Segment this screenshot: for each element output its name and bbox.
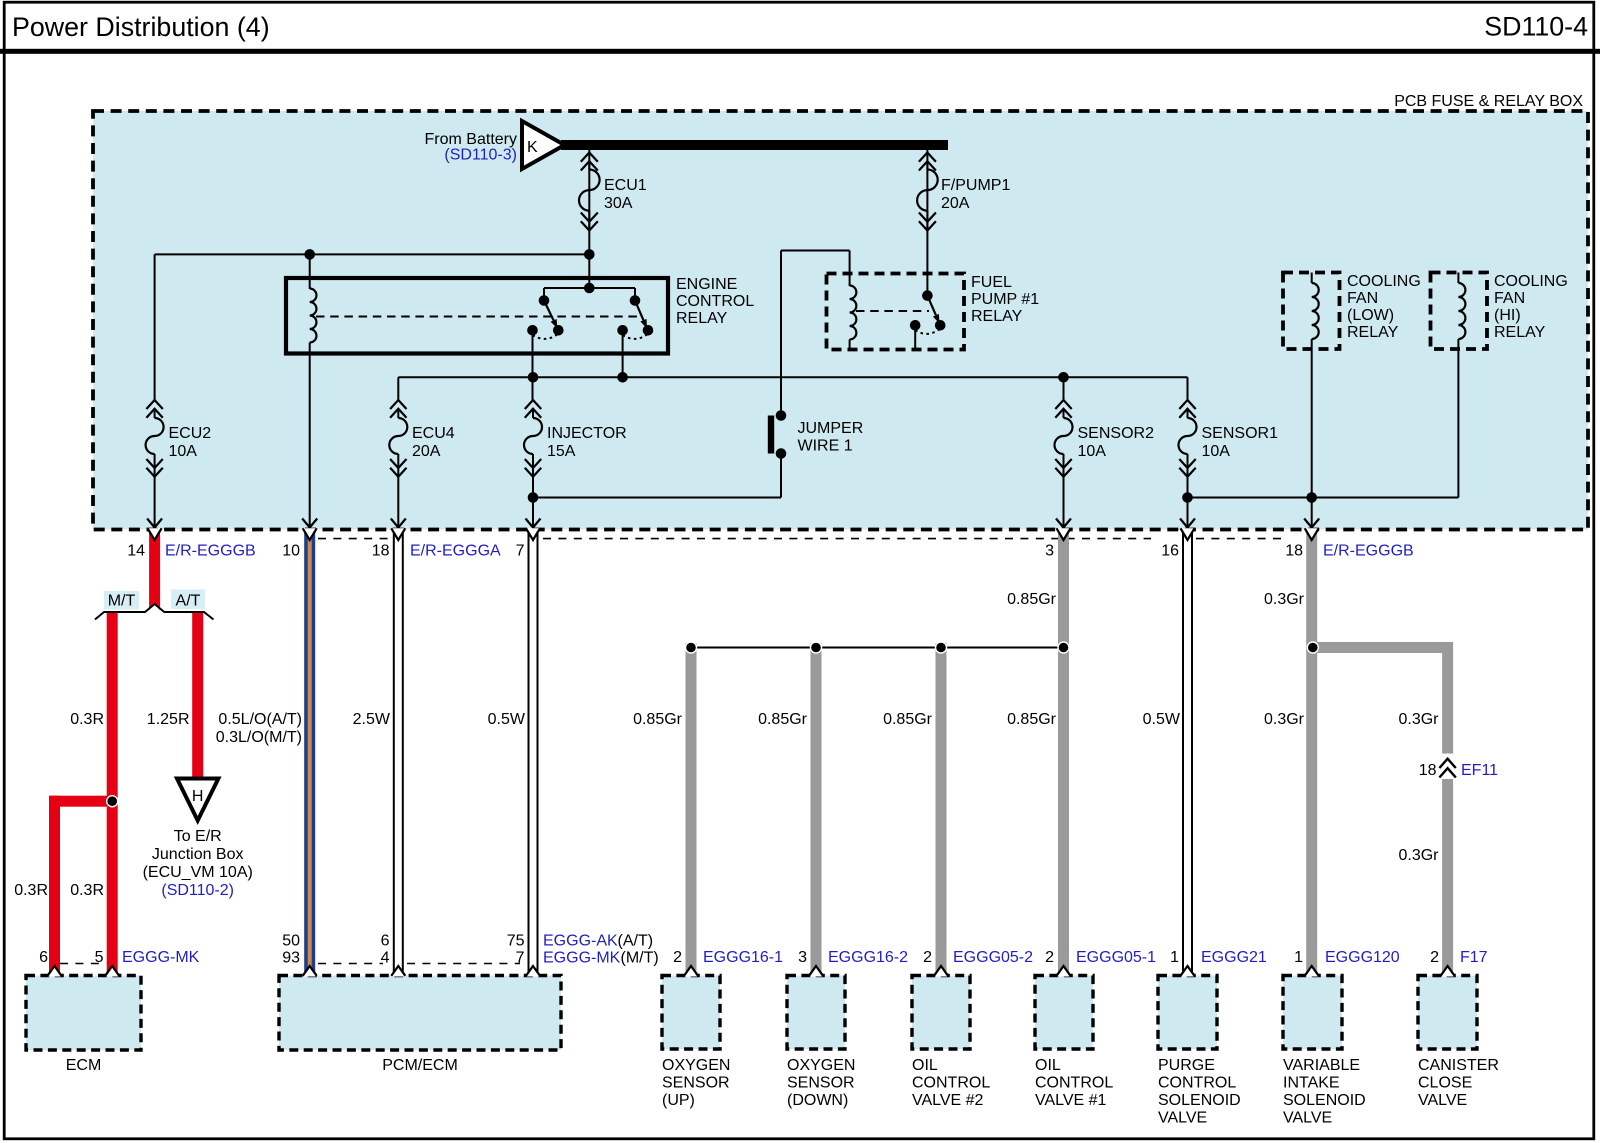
svg-text:Junction Box: Junction Box xyxy=(152,846,244,863)
net EGGG-AK (A/T) xyxy=(543,933,653,950)
label ENGINE CONTROL RELAY xyxy=(676,276,754,327)
node red junction xyxy=(107,796,118,807)
svg-text:(M/T): (M/T) xyxy=(621,950,659,967)
label 0.85Gr oil valve 2 xyxy=(883,711,933,728)
label pin 6 xyxy=(39,949,48,966)
ECM pin 6 entry xyxy=(48,966,62,977)
fuse ECU1 30A xyxy=(579,153,600,231)
svg-text:CONTROL: CONTROL xyxy=(1035,1075,1113,1092)
label pin 10 xyxy=(282,543,300,560)
label 0.5L/O(A/T) 0.3L/O(M/T) xyxy=(216,711,302,746)
label PCM/ECM xyxy=(382,1057,458,1074)
svg-text:0.3R: 0.3R xyxy=(70,711,104,728)
label 0.85Gr oxygen up xyxy=(633,711,683,728)
label 0.85Gr sensor2 upper xyxy=(1007,591,1057,608)
node gray bus 4 xyxy=(1058,642,1069,653)
svg-text:6: 6 xyxy=(381,933,390,950)
svg-text:10A: 10A xyxy=(1078,443,1107,460)
relay U1 contact bar xyxy=(544,288,635,296)
label pin 2 oil1 xyxy=(1045,949,1054,966)
oxygen up pin 2 entry xyxy=(684,966,698,977)
net F17 xyxy=(1460,949,1488,966)
connector pin 7 xyxy=(526,519,541,541)
label 0.5W xyxy=(488,711,526,728)
oil valve 1 pin 2 entry xyxy=(1057,966,1071,977)
svg-text:3: 3 xyxy=(798,949,807,966)
label COOLING FAN (HI) RELAY xyxy=(1494,273,1568,341)
svg-text:FAN: FAN xyxy=(1494,290,1525,307)
svg-text:0.3Gr: 0.3Gr xyxy=(1398,711,1439,728)
box ECM xyxy=(26,976,141,1051)
label 0.85Gr oxygen down xyxy=(758,711,808,728)
ECM pin 5 entry xyxy=(105,966,119,977)
node gray bus 1 xyxy=(686,642,697,653)
svg-text:A/T: A/T xyxy=(176,593,201,610)
box OIL CONTROL VALVE #1 xyxy=(1035,976,1093,1050)
svg-text:15A: 15A xyxy=(547,443,576,460)
to E/R arrow H xyxy=(177,779,218,821)
net EGGG21 xyxy=(1201,949,1267,966)
svg-text:E/R-EGGGA: E/R-EGGGA xyxy=(410,543,501,560)
svg-text:Power Distribution (4): Power Distribution (4) xyxy=(12,12,270,42)
label VARIABLE INTAKE SOLENOID VALVE xyxy=(1283,1057,1366,1127)
fuse ECU4 20A xyxy=(389,400,407,477)
relay K2 switch contacts xyxy=(910,320,946,334)
svg-text:SENSOR2: SENSOR2 xyxy=(1078,425,1155,442)
title separator line xyxy=(0,49,1600,54)
svg-text:SD110-4: SD110-4 xyxy=(1484,12,1588,42)
svg-text:EGGG05-1: EGGG05-1 xyxy=(1076,949,1156,966)
svg-text:0.3Gr: 0.3Gr xyxy=(1264,711,1305,728)
wire 0.3R label xyxy=(70,711,104,728)
title Power Distribution (4) xyxy=(12,12,270,42)
from-battery arrow K xyxy=(522,121,565,169)
svg-text:10A: 10A xyxy=(169,443,198,460)
label pin 1 purge xyxy=(1170,949,1179,966)
svg-text:20A: 20A xyxy=(941,195,970,212)
label ECU4 20A xyxy=(412,425,455,460)
wire oxygen sensor gray bus xyxy=(691,647,1064,649)
svg-text:VALVE: VALVE xyxy=(1283,1110,1332,1127)
svg-text:ECU2: ECU2 xyxy=(169,425,212,442)
svg-text:4: 4 xyxy=(381,950,390,967)
variable intake pin 1 entry xyxy=(1305,966,1319,977)
relay K3 COOLING FAN (LOW) RELAY box xyxy=(1283,273,1340,350)
svg-text:M/T: M/T xyxy=(108,593,136,610)
svg-text:0.85Gr: 0.85Gr xyxy=(758,711,808,728)
label 2.5W xyxy=(353,711,391,728)
svg-text:SENSOR: SENSOR xyxy=(662,1075,730,1092)
label OXYGEN SENSOR (DOWN) xyxy=(787,1057,855,1109)
svg-text:6: 6 xyxy=(39,949,48,966)
svg-text:PCB FUSE & RELAY BOX: PCB FUSE & RELAY BOX xyxy=(1394,93,1583,110)
label 0.3Gr branch xyxy=(1398,711,1439,728)
label To E/R Junction Box xyxy=(143,828,253,881)
svg-text:18: 18 xyxy=(1419,762,1437,779)
relay K2 switch arm xyxy=(927,296,939,324)
svg-text:0.3R: 0.3R xyxy=(70,882,104,899)
wire 0.85Gr gray oxygen down xyxy=(811,643,822,976)
relay U1 switch 1 pivot xyxy=(539,295,550,306)
svg-text:(SD110-3): (SD110-3) xyxy=(444,147,517,164)
wire relay coil to connector pin10 xyxy=(309,354,311,528)
connector pin 10 xyxy=(302,519,317,541)
canister pin 2 entry xyxy=(1441,966,1455,977)
svg-text:OIL: OIL xyxy=(912,1057,938,1074)
node junction relay coil top xyxy=(304,249,315,260)
label F/PUMP1 20A xyxy=(941,177,1010,212)
node jumper bottom xyxy=(776,448,787,459)
label pin 7 xyxy=(516,543,525,560)
svg-text:VALVE: VALVE xyxy=(1418,1092,1467,1109)
wire cooling fan link xyxy=(1188,497,1459,499)
svg-text:5: 5 xyxy=(95,949,104,966)
svg-text:30A: 30A xyxy=(604,195,633,212)
wire 0.85Gr gray oil valve 2 xyxy=(936,643,947,976)
label INJECTOR 15A xyxy=(547,425,627,460)
node dist injector xyxy=(528,372,539,383)
svg-text:2: 2 xyxy=(923,949,932,966)
oil valve 2 pin 2 entry xyxy=(934,966,948,977)
title SD110-4 xyxy=(1484,12,1588,42)
box PCM/ECM xyxy=(279,976,561,1051)
svg-text:EGGG-MK: EGGG-MK xyxy=(543,950,621,967)
svg-text:2: 2 xyxy=(1045,949,1054,966)
label pin 14 xyxy=(127,543,145,560)
svg-text:PUMP #1: PUMP #1 xyxy=(971,291,1039,308)
svg-text:ECU1: ECU1 xyxy=(604,177,647,194)
label 0.5W sensor1 xyxy=(1143,711,1181,728)
node gray branch junction xyxy=(1307,642,1318,653)
node gray bus 3 xyxy=(936,642,947,653)
relay U1 switch 1 arm xyxy=(544,301,558,329)
label pin 3 oxy down xyxy=(798,949,807,966)
wire relay contact feed xyxy=(588,254,590,288)
box CANISTER CLOSE VALVE xyxy=(1418,976,1477,1050)
svg-text:INJECTOR: INJECTOR xyxy=(547,425,627,442)
svg-text:(SD110-2): (SD110-2) xyxy=(161,882,234,899)
wire 0.3R red M/T branch xyxy=(107,613,118,976)
label ECU1 30A xyxy=(604,177,647,212)
box OXYGEN SENSOR (UP) xyxy=(662,976,720,1050)
svg-text:(ECU_VM 10A): (ECU_VM 10A) xyxy=(143,864,253,881)
svg-text:JUMPER: JUMPER xyxy=(798,420,864,437)
svg-text:OXYGEN: OXYGEN xyxy=(662,1057,730,1074)
svg-text:3: 3 xyxy=(1045,543,1054,560)
oxygen down pin 3 entry xyxy=(809,966,823,977)
wire 0.85Gr gray oxygen up xyxy=(686,643,697,976)
svg-text:FAN: FAN xyxy=(1347,290,1378,307)
label pin 3 xyxy=(1045,543,1054,560)
svg-text:INTAKE: INTAKE xyxy=(1283,1075,1340,1092)
svg-text:RELAY: RELAY xyxy=(1347,324,1399,341)
svg-text:EGGG120: EGGG120 xyxy=(1325,949,1400,966)
relay K4 coil xyxy=(1458,273,1465,498)
label EF11 xyxy=(1461,762,1498,779)
relay K4 COOLING FAN (HI) RELAY box xyxy=(1431,273,1488,350)
label COOLING FAN (LOW) RELAY xyxy=(1347,273,1421,341)
label 0.3Gr below EF11 xyxy=(1398,847,1439,864)
label pin 5 xyxy=(95,949,104,966)
svg-text:WIRE 1: WIRE 1 xyxy=(798,438,853,455)
connector dashes top xyxy=(318,538,1286,540)
svg-text:FUEL: FUEL xyxy=(971,274,1012,291)
PCM pin 75/7 entry xyxy=(526,966,540,977)
wire relay U1 out2 xyxy=(622,330,624,378)
relay K3 coil xyxy=(1312,273,1319,529)
label pin 6 4 xyxy=(381,933,390,967)
label OIL CONTROL VALVE #2 xyxy=(912,1057,990,1109)
label pin 2 canister xyxy=(1430,949,1439,966)
relay K2 switch pivot xyxy=(922,290,933,301)
svg-text:H: H xyxy=(192,788,204,805)
wire fuel pump coil feed xyxy=(781,251,850,287)
fuse INJECTOR 15A xyxy=(524,400,542,477)
node dist relay out2 xyxy=(617,372,628,383)
svg-text:0.85Gr: 0.85Gr xyxy=(1007,711,1057,728)
wire SENSOR2 to connector xyxy=(1063,477,1065,528)
connector pin 18 left xyxy=(391,519,406,541)
svg-text:VARIABLE: VARIABLE xyxy=(1283,1057,1360,1074)
svg-text:EGGG-AK: EGGG-AK xyxy=(543,933,618,950)
label 0.3Gr pin18 lower xyxy=(1264,711,1305,728)
svg-text:VALVE: VALVE xyxy=(1158,1110,1207,1127)
svg-text:SOLENOID: SOLENOID xyxy=(1283,1092,1366,1109)
svg-text:(A/T): (A/T) xyxy=(618,933,654,950)
red wire split notch xyxy=(95,604,214,620)
svg-text:(HI): (HI) xyxy=(1494,307,1521,324)
fuse F/PUMP1 20A xyxy=(917,153,938,231)
svg-text:(DOWN): (DOWN) xyxy=(787,1092,848,1109)
svg-text:F/PUMP1: F/PUMP1 xyxy=(941,177,1010,194)
label 0.85Gr sensor2 lower xyxy=(1007,711,1057,728)
wire F/PUMP1 fuse drop xyxy=(926,150,928,296)
label OXYGEN SENSOR (UP) xyxy=(662,1057,730,1109)
purge pin 1 entry xyxy=(1181,966,1195,977)
svg-text:0.85Gr: 0.85Gr xyxy=(633,711,683,728)
wire INJECTOR to connector xyxy=(532,477,534,528)
svg-text:CANISTER: CANISTER xyxy=(1418,1057,1499,1074)
fuse SENSOR2 10A xyxy=(1055,400,1073,477)
svg-text:1.25R: 1.25R xyxy=(147,711,190,728)
svg-text:EGGG16-1: EGGG16-1 xyxy=(703,949,783,966)
net EGGG05-2 xyxy=(953,949,1033,966)
connector pin 14 xyxy=(147,519,162,541)
svg-text:7: 7 xyxy=(516,950,525,967)
wire red ECM branch xyxy=(49,796,112,976)
PCM pin 6/4 entry xyxy=(391,966,405,977)
svg-text:K: K xyxy=(527,139,538,156)
jumper wire 1 bar xyxy=(768,416,774,454)
label pin 2 oxy up xyxy=(673,949,682,966)
svg-text:75: 75 xyxy=(507,933,525,950)
svg-text:0.3Gr: 0.3Gr xyxy=(1264,591,1305,608)
label pin 18 right xyxy=(1285,543,1303,560)
label (SD110-3) xyxy=(444,147,517,164)
svg-text:SENSOR: SENSOR xyxy=(787,1075,855,1092)
label ECU2 10A xyxy=(169,425,212,460)
svg-text:EGGG-MK: EGGG-MK xyxy=(122,949,200,966)
net EGGG-MK (M/T) xyxy=(543,950,659,967)
box PURGE CONTROL SOLENOID VALVE xyxy=(1158,976,1217,1050)
tag A/T xyxy=(171,590,205,610)
svg-text:F17: F17 xyxy=(1460,949,1488,966)
label ECM xyxy=(66,1057,102,1074)
label 0.3R left xyxy=(14,882,48,899)
node dist sensor2 xyxy=(1058,372,1069,383)
svg-text:CONTROL: CONTROL xyxy=(1158,1075,1236,1092)
wire relay U1 out1 xyxy=(532,330,534,401)
svg-text:0.85Gr: 0.85Gr xyxy=(883,711,933,728)
relay K2 coil xyxy=(850,286,857,350)
svg-text:EGGG05-2: EGGG05-2 xyxy=(953,949,1033,966)
connector dashes bottom xyxy=(60,963,520,965)
fuse SENSOR1 10A xyxy=(1179,400,1197,477)
relay U1 switch 1 contacts xyxy=(527,325,563,339)
PCM pin 50/93 entry xyxy=(303,966,317,977)
wire SENSOR1 to connector xyxy=(1187,477,1189,528)
label SENSOR2 10A xyxy=(1078,425,1155,460)
relay U1 switch 2 contacts xyxy=(617,325,653,339)
wire relay coil feed xyxy=(309,254,311,289)
label pin 1 vis xyxy=(1294,949,1303,966)
node jumper top xyxy=(776,410,787,421)
svg-text:(UP): (UP) xyxy=(662,1092,695,1109)
svg-text:CONTROL: CONTROL xyxy=(676,293,754,310)
label JUMPER WIRE 1 xyxy=(798,420,864,455)
connector pin 16 xyxy=(1180,519,1195,541)
wire jumper feed xyxy=(780,251,782,417)
label pin 2 oil2 xyxy=(923,949,932,966)
label pin 50 93 xyxy=(282,933,300,967)
fuse ECU2 10A xyxy=(146,400,164,477)
wire bus ECU1 to relay row xyxy=(155,254,590,401)
svg-text:50: 50 xyxy=(282,933,300,950)
connector EF11 xyxy=(1439,753,1455,778)
wire 0.3Gr gray pin18 xyxy=(1306,530,1317,976)
svg-text:VALVE #1: VALVE #1 xyxy=(1035,1092,1107,1109)
label PURGE CONTROL SOLENOID VALVE xyxy=(1158,1057,1241,1127)
label (SD110-2) xyxy=(161,882,234,899)
svg-text:ENGINE: ENGINE xyxy=(676,276,737,293)
svg-text:VALVE #2: VALVE #2 xyxy=(912,1092,984,1109)
svg-text:14: 14 xyxy=(127,543,145,560)
wire sensor2 drop xyxy=(1063,377,1065,401)
relay K2 FUEL PUMP #1 RELAY box xyxy=(827,274,965,350)
net EGGG16-2 xyxy=(828,949,908,966)
svg-text:0.3Gr: 0.3Gr xyxy=(1398,847,1439,864)
net EGGG16-1 xyxy=(703,949,783,966)
wire 0.3R red pin14 xyxy=(149,530,160,613)
label FUEL PUMP #1 RELAY xyxy=(971,274,1039,325)
label CANISTER CLOSE VALVE xyxy=(1418,1057,1499,1109)
svg-text:16: 16 xyxy=(1161,543,1179,560)
wire 1.25R red A/T branch xyxy=(192,613,203,779)
svg-text:SOLENOID: SOLENOID xyxy=(1158,1092,1241,1109)
relay U1 switch 2 arm xyxy=(635,301,647,329)
connector pin 18 right xyxy=(1304,519,1319,541)
svg-text:From Battery: From Battery xyxy=(425,131,517,148)
net EGGG-MK xyxy=(122,949,200,966)
svg-text:EGGG16-2: EGGG16-2 xyxy=(828,949,908,966)
svg-text:CLOSE: CLOSE xyxy=(1418,1075,1472,1092)
svg-text:20A: 20A xyxy=(412,443,441,460)
svg-text:93: 93 xyxy=(282,950,300,967)
relay U1 switch 2 pivot xyxy=(630,295,641,306)
svg-text:OXYGEN: OXYGEN xyxy=(787,1057,855,1074)
svg-text:18: 18 xyxy=(372,543,390,560)
label pin 16 xyxy=(1161,543,1179,560)
net E/R-EGGGB right xyxy=(1323,543,1414,560)
svg-text:RELAY: RELAY xyxy=(971,308,1023,325)
wire 0.5W white pin16 xyxy=(1183,530,1192,976)
svg-text:COOLING: COOLING xyxy=(1347,273,1421,290)
svg-text:2.5W: 2.5W xyxy=(353,711,391,728)
svg-text:0.3R: 0.3R xyxy=(14,882,48,899)
wire jumper to injector net xyxy=(533,454,781,498)
wire 2.5W white pin18 xyxy=(394,530,403,976)
box VARIABLE INTAKE SOLENOID VALVE xyxy=(1283,976,1342,1050)
svg-text:(LOW): (LOW) xyxy=(1347,307,1394,324)
wire ECU2 to connector xyxy=(154,477,156,528)
label pin 18 left xyxy=(372,543,390,560)
svg-text:EF11: EF11 xyxy=(1461,762,1498,779)
PCB FUSE & RELAY BOX outline xyxy=(93,111,1588,530)
svg-text:COOLING: COOLING xyxy=(1494,273,1568,290)
label pin 18 EF11 xyxy=(1419,762,1437,779)
connector pin 3 xyxy=(1056,519,1071,541)
label 0.3R right xyxy=(70,882,104,899)
svg-text:18: 18 xyxy=(1285,543,1303,560)
svg-text:OIL: OIL xyxy=(1035,1057,1061,1074)
relay U1 internal dashed link xyxy=(316,316,640,318)
label From Battery xyxy=(425,131,517,148)
net E/R-EGGGA xyxy=(410,543,501,560)
wire ECU1 fuse to bus xyxy=(588,150,590,258)
svg-text:ECM: ECM xyxy=(66,1057,102,1074)
label 0.3Gr pin18 upper xyxy=(1264,591,1305,608)
svg-text:1: 1 xyxy=(1170,949,1179,966)
battery bus bar xyxy=(561,140,948,150)
svg-text:0.5W: 0.5W xyxy=(488,711,526,728)
net EGGG120 xyxy=(1325,949,1400,966)
svg-text:PURGE: PURGE xyxy=(1158,1057,1215,1074)
box OXYGEN SENSOR (DOWN) xyxy=(787,976,845,1050)
node gray bus 2 xyxy=(811,642,822,653)
svg-text:CONTROL: CONTROL xyxy=(912,1075,990,1092)
svg-text:0.85Gr: 0.85Gr xyxy=(1007,591,1057,608)
wire 1.25R label xyxy=(147,711,190,728)
PCB FUSE & RELAY BOX label xyxy=(1394,93,1583,110)
svg-text:2: 2 xyxy=(1430,949,1439,966)
wire relay outputs distribution xyxy=(398,377,1187,401)
svg-text:1: 1 xyxy=(1294,949,1303,966)
svg-text:E/R-EGGGB: E/R-EGGGB xyxy=(165,543,256,560)
label OIL CONTROL VALVE #1 xyxy=(1035,1057,1113,1109)
svg-text:0.5L/O(A/T): 0.5L/O(A/T) xyxy=(218,711,302,728)
wire relay K2 out stub xyxy=(914,325,916,349)
relay U1 ENGINE CONTROL RELAY box xyxy=(286,278,668,354)
svg-text:EGGG21: EGGG21 xyxy=(1201,949,1267,966)
svg-text:10A: 10A xyxy=(1202,443,1231,460)
svg-text:ECU4: ECU4 xyxy=(412,425,455,442)
wire 0.5L/O navy pin10 xyxy=(304,530,315,976)
relay U1 coil xyxy=(310,289,317,355)
node relay U1 common xyxy=(584,283,595,294)
wire 0.3Gr gray branch to canister xyxy=(1312,642,1453,976)
label SENSOR1 10A xyxy=(1202,425,1279,460)
node junction ECU1 output xyxy=(584,249,595,260)
